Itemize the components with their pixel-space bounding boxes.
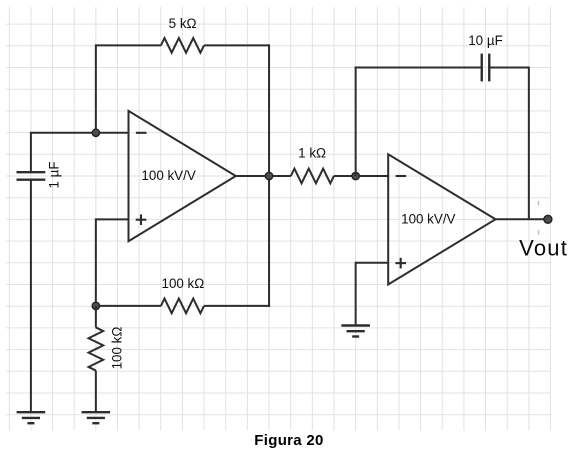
terminal Vout: [544, 215, 552, 223]
op-amp U2 minus sign: [396, 175, 407, 177]
capacitor C 1uF plates: [17, 172, 46, 180]
op-amp U1 minus sign: [136, 132, 147, 134]
node: op1 inverting input junction: [92, 129, 99, 136]
svg-text:100 kV/V: 100 kV/V: [141, 168, 195, 183]
svg-text:1 µF: 1 µF: [47, 161, 62, 188]
wire: vertical down from op2 + to ground: [355, 262, 357, 326]
caption Figura 20: [0, 432, 571, 449]
op-amp U1 triangle: [129, 111, 236, 241]
wire: lower feedback horizontal left stub: [96, 305, 161, 307]
resistor 5 kOhm: [161, 38, 204, 53]
wire: 10uF loop top horizontal left part: [355, 67, 482, 69]
svg-text:5 kΩ: 5 kΩ: [169, 16, 197, 31]
wire: 10uF loop right vertical down to output: [528, 67, 530, 220]
wire: right vertical from 5k loop down to op1 output node and on to 100k loop: [268, 44, 270, 307]
op-amp U2 triangle: [388, 154, 495, 284]
wire: lower feedback horizontal right stub: [204, 305, 270, 307]
capacitor C 1uF top lead: [30, 133, 32, 172]
wire: vertical from op1 + input down to node: [95, 218, 97, 306]
wire: op2 non-inverting input horizontal: [356, 262, 389, 264]
capacitor C 10uF plates: [482, 54, 490, 82]
op-amp U2 plus sign: [395, 258, 406, 269]
capacitor C 1uF bottom lead down to ground: [30, 180, 32, 413]
ground under 100k resistor: [82, 412, 111, 423]
wire: 10uF loop top horizontal right part: [489, 67, 529, 69]
wire: op1 non-inverting input horizontal: [96, 218, 129, 220]
wire: op1 output to 1k resistor: [236, 175, 291, 177]
wire: op2 output to Vout terminal: [496, 218, 548, 220]
wire: 1k resistor to op2 inverting input: [334, 175, 388, 177]
node: + input feedback junction: [92, 302, 99, 309]
selection dashes near Vout terminal: [538, 201, 540, 235]
resistor 1 kOhm: [291, 169, 334, 184]
op-amp U1 plus sign: [136, 214, 147, 225]
svg-text:100 kΩ: 100 kΩ: [109, 327, 124, 370]
node: op2 inverting input junction: [352, 172, 359, 179]
resistor 100 kOhm (feedback): [161, 299, 204, 314]
svg-text:1 kΩ: 1 kΩ: [298, 145, 326, 160]
svg-text:Vout: Vout: [519, 236, 568, 261]
svg-text:100 kΩ: 100 kΩ: [162, 276, 205, 291]
wire: top feedback horizontal (5k loop): [96, 44, 161, 46]
resistor 100 kOhm (to ground) zigzag: [89, 327, 104, 370]
svg-text:100 kV/V: 100 kV/V: [401, 212, 455, 227]
svg-text:10 µF: 10 µF: [468, 33, 503, 48]
wire: left vertical of 5k loop: [95, 44, 97, 132]
wire: vertical up from op2 - node to 10uF loop: [355, 67, 357, 177]
ground at op2 non-inverting input: [341, 326, 370, 337]
resistor 100 kOhm (to ground) upper lead: [95, 306, 97, 328]
wire: input horizontal into op1 inverting input: [30, 132, 129, 134]
ground under 1uF branch: [17, 412, 46, 423]
resistor 100 kOhm (to ground) lower lead: [95, 371, 97, 413]
